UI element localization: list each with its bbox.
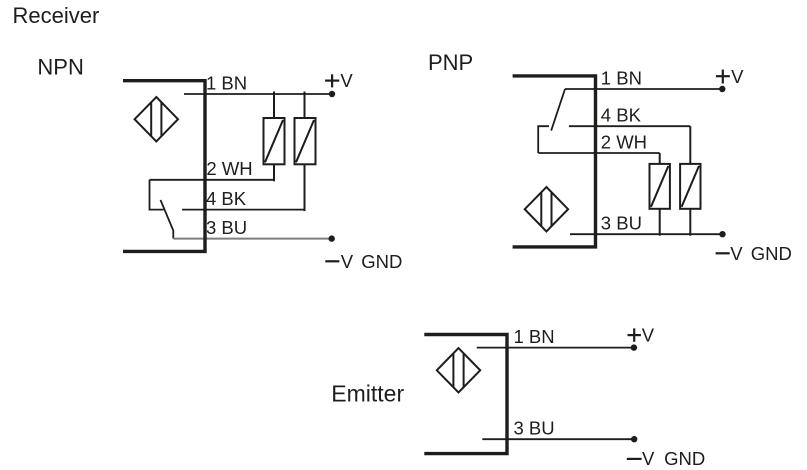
svg-text:1 BN: 1 BN: [514, 326, 555, 347]
svg-text:V: V: [730, 243, 743, 264]
svg-text:GND: GND: [751, 243, 792, 264]
svg-text:4 BK: 4 BK: [206, 188, 247, 209]
svg-text:2 WH: 2 WH: [206, 158, 252, 179]
svg-text:2 WH: 2 WH: [601, 131, 647, 152]
svg-text:PNP: PNP: [428, 50, 473, 75]
svg-text:NPN: NPN: [37, 55, 83, 80]
svg-text:V: V: [340, 70, 353, 91]
svg-text:V: V: [731, 66, 744, 87]
svg-text:Emitter: Emitter: [331, 381, 404, 407]
svg-text:V: V: [642, 324, 655, 345]
svg-text:Receiver: Receiver: [13, 3, 100, 28]
svg-text:3 BU: 3 BU: [601, 213, 642, 234]
svg-text:4 BK: 4 BK: [601, 105, 642, 126]
svg-text:GND: GND: [361, 251, 402, 272]
svg-text:V: V: [341, 251, 354, 272]
svg-text:3 BU: 3 BU: [206, 217, 247, 238]
svg-text:3 BU: 3 BU: [514, 418, 555, 439]
svg-text:1 BN: 1 BN: [601, 67, 642, 88]
svg-text:1 BN: 1 BN: [206, 72, 247, 93]
svg-text:GND: GND: [664, 448, 705, 469]
svg-text:V: V: [642, 448, 655, 469]
